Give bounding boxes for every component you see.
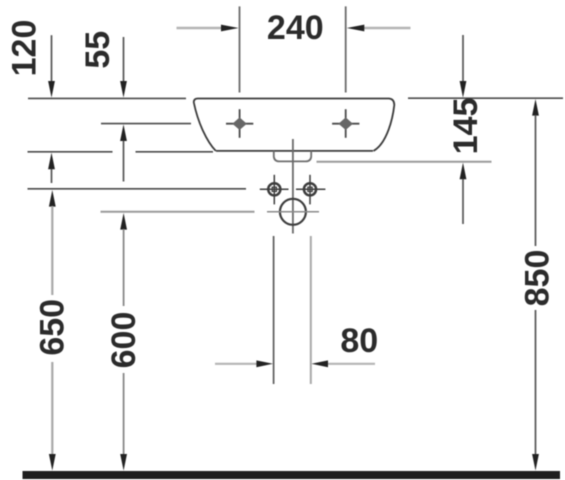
svg-text:55: 55 (79, 31, 117, 69)
svg-text:240: 240 (267, 9, 324, 47)
svg-text:850: 850 (519, 250, 557, 307)
svg-text:600: 600 (105, 312, 143, 369)
svg-text:650: 650 (33, 299, 71, 356)
svg-text:80: 80 (340, 322, 378, 360)
svg-text:120: 120 (6, 20, 44, 77)
svg-text:145: 145 (447, 98, 485, 155)
